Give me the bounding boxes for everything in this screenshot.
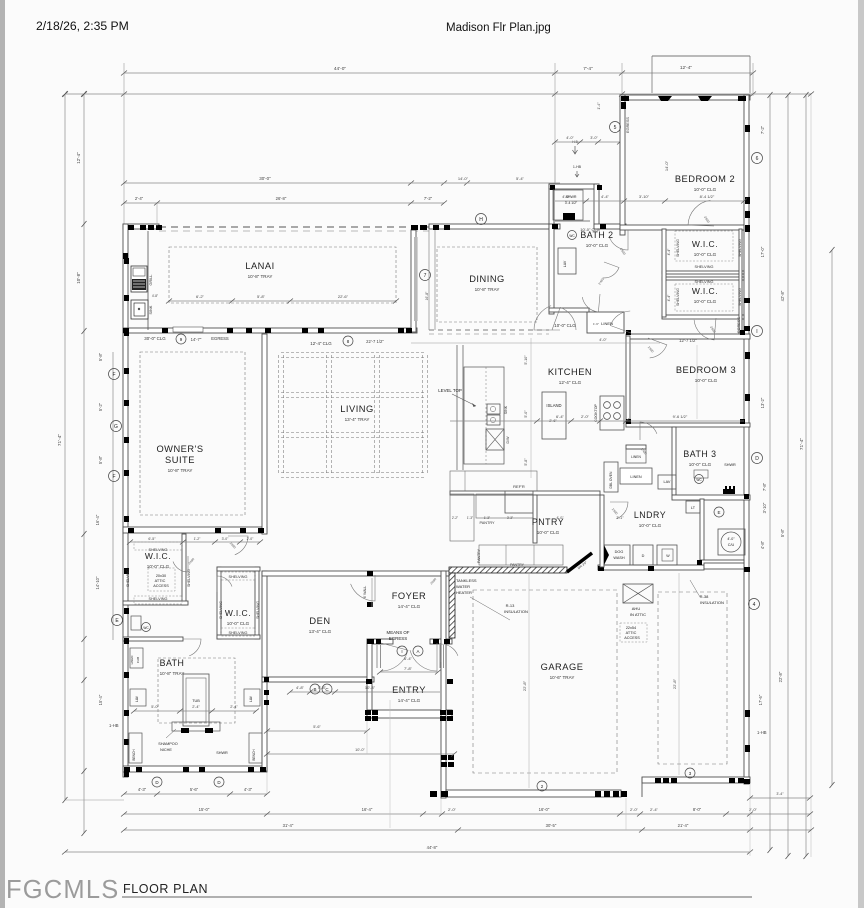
svg-text:10'-8": 10'-8" (365, 685, 376, 690)
svg-text:4'-3": 4'-3" (244, 787, 253, 792)
svg-text:5: 5 (614, 125, 617, 131)
svg-text:7'-8": 7'-8" (404, 666, 413, 671)
svg-text:22'-8": 22'-8" (522, 680, 527, 691)
svg-text:E: E (717, 510, 720, 515)
svg-text:3'-10": 3'-10" (639, 194, 650, 199)
svg-text:BATH: BATH (160, 658, 185, 668)
svg-text:4'-0": 4'-0" (727, 537, 735, 541)
svg-text:12'-7 1/2": 12'-7 1/2" (679, 338, 697, 343)
svg-text:EGRESS: EGRESS (737, 317, 741, 333)
svg-text:6'-2": 6'-2" (196, 294, 205, 299)
svg-text:10'-8" TRAY: 10'-8" TRAY (475, 287, 500, 292)
svg-text:SHWR: SHWR (724, 463, 736, 467)
svg-text:HEATER: HEATER (456, 590, 472, 595)
svg-text:5'-8": 5'-8" (98, 352, 103, 361)
svg-text:DBL OVEN: DBL OVEN (609, 471, 613, 489)
svg-text:SHWR: SHWR (216, 751, 228, 755)
svg-text:10'-0" CLG: 10'-0" CLG (689, 462, 712, 467)
svg-text:SINK: SINK (504, 405, 508, 414)
svg-text:SHAMPOO: SHAMPOO (158, 742, 177, 746)
svg-text:EGRESS: EGRESS (211, 336, 229, 341)
svg-text:10'-0" CLG: 10'-0" CLG (586, 243, 609, 248)
svg-text:10'-0": 10'-0" (355, 748, 365, 752)
svg-text:LAV: LAV (563, 260, 567, 267)
svg-text:GARAGE: GARAGE (541, 662, 584, 672)
svg-text:TUB: TUB (192, 699, 200, 703)
svg-text:BENCH: BENCH (132, 749, 136, 761)
svg-text:NICHE: NICHE (160, 748, 172, 752)
svg-text:10'-0" CLG: 10'-0" CLG (639, 523, 662, 528)
svg-text:A: A (416, 649, 419, 654)
svg-text:14'-4" CLG: 14'-4" CLG (398, 604, 421, 609)
svg-text:W.I.C.: W.I.C. (145, 551, 171, 561)
svg-text:26'-8": 26'-8" (276, 196, 287, 201)
svg-text:LANAI: LANAI (245, 261, 274, 271)
svg-text:1-HB: 1-HB (573, 165, 582, 169)
svg-text:FLOOR PLAN: FLOOR PLAN (123, 882, 208, 896)
svg-text:D: D (642, 554, 645, 558)
svg-text:R-38: R-38 (700, 594, 709, 599)
svg-text:5'-8": 5'-8" (524, 458, 528, 466)
svg-text:INSULATION: INSULATION (700, 600, 724, 605)
svg-text:KITCHEN: KITCHEN (548, 367, 592, 377)
svg-text:DOG: DOG (615, 550, 624, 554)
svg-text:5'-8": 5'-8" (257, 294, 266, 299)
svg-text:SHELVING: SHELVING (229, 631, 248, 635)
svg-text:6'-5": 6'-5" (148, 537, 156, 541)
svg-text:SINK: SINK (149, 305, 153, 314)
svg-text:BENCH: BENCH (252, 749, 256, 761)
svg-text:IN ATTIC: IN ATTIC (630, 612, 646, 617)
svg-text:FGCMLS: FGCMLS (6, 876, 119, 904)
svg-text:GRILL: GRILL (149, 275, 153, 286)
svg-text:6' WALL: 6' WALL (363, 586, 367, 599)
svg-text:LAV: LAV (249, 695, 253, 702)
svg-text:PANTRY: PANTRY (477, 548, 481, 563)
svg-text:AHU: AHU (632, 606, 641, 611)
svg-text:LINEN: LINEN (630, 475, 641, 479)
svg-text:14'-4" CLG: 14'-4" CLG (398, 698, 421, 703)
svg-text:7'-8": 7'-8" (762, 482, 767, 491)
svg-text:SHELVING: SHELVING (149, 597, 168, 601)
svg-text:7'-2": 7'-2" (760, 125, 765, 134)
svg-text:PNTRY: PNTRY (532, 517, 564, 527)
svg-text:44'-8": 44'-8" (427, 845, 438, 850)
svg-text:2'-4": 2'-4" (135, 196, 144, 201)
svg-text:I: I (401, 649, 402, 654)
svg-text:LINEN: LINEN (631, 455, 641, 459)
svg-text:2'-0": 2'-0" (581, 414, 590, 419)
svg-text:ACCESS: ACCESS (153, 584, 169, 588)
svg-text:SHWR: SHWR (566, 195, 577, 199)
svg-text:F: F (112, 474, 115, 480)
svg-text:SHELVING: SHELVING (126, 569, 130, 587)
svg-text:9'-6 1/2": 9'-6 1/2" (673, 414, 688, 419)
svg-text:2'-0": 2'-0" (630, 807, 639, 812)
svg-text:10'-0" CLG: 10'-0" CLG (580, 227, 600, 232)
svg-text:BEDROOM 3: BEDROOM 3 (676, 365, 736, 375)
svg-text:3'-0": 3'-0" (222, 537, 230, 541)
svg-text:16'-4": 16'-4" (95, 514, 100, 525)
svg-text:10'-0" CLG: 10'-0" CLG (227, 621, 250, 626)
svg-text:10'-6" TRAY: 10'-6" TRAY (550, 675, 575, 680)
svg-text:D/W: D/W (506, 436, 510, 444)
svg-text:5'-2": 5'-2" (98, 402, 103, 411)
svg-text:FOYER: FOYER (392, 591, 427, 601)
svg-text:3'-0": 3'-0" (590, 136, 598, 140)
svg-text:MEANS OF: MEANS OF (387, 630, 410, 635)
svg-text:SHELVING: SHELVING (738, 288, 742, 306)
svg-text:3'-4": 3'-4" (776, 792, 784, 796)
svg-text:ATTIC: ATTIC (155, 579, 166, 583)
svg-text:71'-4": 71'-4" (799, 438, 805, 451)
svg-text:13'-4" CLG: 13'-4" CLG (309, 629, 332, 634)
svg-text:10'-8": 10'-8" (76, 272, 81, 284)
svg-text:71'-4": 71'-4" (57, 434, 63, 447)
svg-text:16'-0": 16'-0" (539, 807, 550, 812)
svg-text:G: G (114, 424, 118, 430)
svg-text:5'-6": 5'-6" (190, 787, 199, 792)
svg-text:1-HB: 1-HB (757, 730, 767, 735)
svg-text:8'-0": 8'-0" (693, 807, 702, 812)
svg-text:31'-4": 31'-4" (283, 823, 294, 828)
svg-text:12'-4": 12'-4" (76, 152, 81, 164)
svg-text:10'-8" TRAY: 10'-8" TRAY (168, 468, 193, 473)
svg-text:17'-6": 17'-6" (758, 694, 763, 705)
svg-text:2'-0": 2'-0" (247, 537, 255, 541)
svg-text:17'-0": 17'-0" (760, 246, 765, 257)
svg-text:22'-8": 22'-8" (778, 671, 783, 682)
svg-text:1'-3": 1'-3" (467, 516, 473, 520)
svg-text:INSULATION: INSULATION (504, 609, 528, 614)
svg-text:SHELVING: SHELVING (695, 265, 714, 269)
svg-text:10'-0" CLG: 10'-0" CLG (694, 252, 717, 257)
svg-text:2/18/26, 2:35 PM: 2/18/26, 2:35 PM (36, 19, 129, 33)
svg-text:30'-0": 30'-0" (259, 176, 271, 181)
svg-text:H-B: H-B (572, 140, 578, 144)
svg-text:C/U: C/U (728, 543, 735, 547)
svg-text:ATTIC: ATTIC (626, 631, 637, 635)
svg-text:SHELVING: SHELVING (676, 288, 680, 306)
svg-text:WC: WC (143, 626, 149, 630)
svg-text:14'-0": 14'-0" (458, 176, 469, 181)
svg-text:14'-0": 14'-0" (664, 160, 669, 171)
svg-text:5'-10": 5'-10" (524, 355, 528, 365)
svg-text:7'-4": 7'-4" (583, 66, 593, 72)
svg-text:13'-2": 13'-2" (760, 397, 765, 408)
svg-text:14'-7": 14'-7" (191, 337, 202, 342)
svg-text:WC: WC (696, 478, 702, 482)
svg-text:2'-2": 2'-2" (452, 516, 458, 520)
svg-text:W.I.C.: W.I.C. (692, 286, 718, 296)
svg-text:3'-4 1/2": 3'-4 1/2" (565, 201, 578, 205)
svg-text:4'-4": 4'-4" (601, 194, 610, 199)
svg-text:22'-8": 22'-8" (672, 678, 677, 689)
svg-text:SHELVING: SHELVING (738, 239, 742, 257)
svg-text:WASH: WASH (613, 556, 625, 560)
svg-text:WC: WC (569, 234, 575, 238)
svg-text:OWNER'S: OWNER'S (156, 444, 203, 454)
svg-text:LAV: LAV (135, 695, 139, 702)
svg-text:14'-10": 14'-10" (95, 576, 100, 590)
svg-text:LT: LT (691, 506, 696, 510)
svg-text:1'-2": 1'-2" (194, 537, 202, 541)
svg-text:LIVING: LIVING (340, 404, 373, 414)
svg-text:I: I (756, 329, 757, 335)
svg-text:LNDRY: LNDRY (634, 510, 666, 520)
svg-text:20x30: 20x30 (156, 574, 166, 578)
svg-text:16'-8": 16'-8" (425, 291, 429, 300)
svg-text:B: B (313, 687, 316, 692)
svg-text:15'-4": 15'-4" (98, 694, 103, 705)
svg-text:D: D (755, 456, 759, 462)
svg-text:4'-3": 4'-3" (138, 787, 147, 792)
svg-text:10'-0" CLG: 10'-0" CLG (695, 378, 718, 383)
svg-text:10'-0" CLG: 10'-0" CLG (147, 564, 170, 569)
svg-text:ENTRY: ENTRY (392, 685, 426, 695)
svg-text:W.I.C.: W.I.C. (692, 239, 718, 249)
svg-text:R-13: R-13 (506, 603, 515, 608)
svg-text:LAV: LAV (664, 480, 671, 484)
svg-text:LINEN: LINEN (601, 321, 613, 326)
svg-text:10'-0" CLG: 10'-0" CLG (694, 299, 717, 304)
svg-text:22'-6": 22'-6" (338, 294, 349, 299)
svg-text:REF'R: REF'R (513, 484, 525, 489)
svg-text:12'-4" CLG: 12'-4" CLG (559, 380, 582, 385)
svg-text:DINING: DINING (469, 274, 505, 284)
svg-text:10'-0" CLG: 10'-0" CLG (554, 323, 576, 328)
svg-text:W.I.C.: W.I.C. (225, 608, 251, 618)
svg-text:2'-0": 2'-0" (448, 807, 457, 812)
svg-text:SHELVING: SHELVING (229, 575, 248, 579)
svg-text:5'-4": 5'-4" (516, 176, 525, 181)
svg-text:1-HB: 1-HB (109, 723, 119, 728)
svg-text:BATH 3: BATH 3 (683, 449, 716, 459)
svg-text:LEVEL TOP: LEVEL TOP (438, 388, 462, 393)
svg-text:Madison Flr Plan.jpg: Madison Flr Plan.jpg (446, 22, 551, 34)
svg-text:3'-3": 3'-3" (507, 516, 513, 520)
svg-text:2'-4": 2'-4" (192, 705, 200, 709)
svg-text:21'-4": 21'-4" (678, 823, 689, 828)
svg-text:10'-8" TRAY: 10'-8" TRAY (160, 671, 185, 676)
svg-text:WATER: WATER (456, 584, 470, 589)
svg-text:7: 7 (424, 273, 427, 279)
svg-text:EGRESS: EGRESS (626, 117, 630, 133)
svg-text:30'-0" CLG: 30'-0" CLG (144, 336, 166, 341)
svg-text:5'-8": 5'-8" (780, 528, 785, 537)
svg-text:4'-8": 4'-8" (152, 294, 158, 298)
svg-text:4'-4": 4'-4" (667, 248, 671, 256)
svg-text:5'-0": 5'-0" (151, 705, 159, 709)
svg-text:10'-8" TRAY: 10'-8" TRAY (248, 274, 273, 279)
svg-text:SHELVING: SHELVING (187, 569, 191, 587)
svg-text:4'-8": 4'-8" (760, 540, 765, 549)
svg-text:5'-8": 5'-8" (98, 455, 103, 464)
svg-text:6'-4": 6'-4" (556, 414, 565, 419)
svg-text:COOKTOP: COOKTOP (594, 403, 598, 422)
svg-text:SHELVING: SHELVING (695, 280, 714, 284)
svg-text:W: W (666, 554, 670, 558)
svg-text:5'-0": 5'-0" (524, 410, 528, 418)
svg-text:H: H (479, 217, 483, 223)
svg-text:13'-4" TRAY: 13'-4" TRAY (345, 417, 370, 422)
svg-text:ISLAND: ISLAND (546, 403, 561, 408)
svg-text:2'-4": 2'-4" (650, 807, 659, 812)
svg-text:TANKLESS: TANKLESS (456, 578, 477, 583)
svg-text:2'-0": 2'-0" (749, 807, 758, 812)
svg-text:1'-4": 1'-4" (597, 102, 601, 110)
svg-text:PANTRY: PANTRY (510, 563, 525, 567)
svg-text:SUITE: SUITE (165, 455, 195, 465)
svg-text:10'-0" CLG: 10'-0" CLG (537, 530, 560, 535)
svg-text:44'-0": 44'-0" (334, 66, 347, 72)
svg-text:8'-4 1/2": 8'-4 1/2" (700, 194, 715, 199)
svg-text:12'-4" CLG: 12'-4" CLG (310, 341, 332, 346)
svg-text:10'-0" CLG: 10'-0" CLG (694, 187, 717, 192)
svg-text:CAB: CAB (136, 657, 140, 663)
svg-text:DEN: DEN (309, 616, 330, 626)
svg-text:LINEN: LINEN (130, 656, 134, 665)
svg-text:5'-6": 5'-6" (313, 725, 321, 729)
svg-text:15'-0": 15'-0" (199, 807, 210, 812)
svg-text:4: 4 (753, 602, 756, 608)
svg-text:22'-7 1/2": 22'-7 1/2" (366, 339, 384, 344)
svg-text:SHELVING: SHELVING (256, 601, 260, 619)
svg-text:6: 6 (756, 156, 759, 162)
svg-text:2'-4": 2'-4" (230, 705, 238, 709)
svg-text:1'-3": 1'-3" (484, 516, 490, 520)
svg-text:3'-10": 3'-10" (762, 502, 767, 513)
svg-text:1'-6": 1'-6" (593, 322, 599, 326)
svg-text:7'-2": 7'-2" (424, 196, 433, 201)
svg-text:42'-8": 42'-8" (780, 290, 785, 301)
svg-text:22x54: 22x54 (626, 626, 636, 630)
svg-text:4'-8": 4'-8" (296, 685, 305, 690)
svg-text:EGRESS: EGRESS (389, 636, 407, 641)
svg-text:PANTRY: PANTRY (479, 521, 495, 525)
svg-text:4'-0": 4'-0" (599, 338, 607, 342)
svg-text:SHELVING: SHELVING (149, 548, 168, 552)
svg-text:BEDROOM 2: BEDROOM 2 (675, 174, 735, 184)
svg-text:F: F (112, 372, 115, 378)
svg-text:30'-5": 30'-5" (546, 823, 557, 828)
svg-text:ACCESS: ACCESS (624, 636, 640, 640)
svg-text:6'-4": 6'-4" (404, 656, 413, 661)
svg-text:4'-4": 4'-4" (667, 294, 671, 302)
svg-text:SHELVING: SHELVING (219, 601, 223, 619)
svg-text:16'-4": 16'-4" (362, 807, 373, 812)
svg-text:12'-4": 12'-4" (680, 65, 693, 71)
svg-text:SHELVING: SHELVING (676, 239, 680, 257)
